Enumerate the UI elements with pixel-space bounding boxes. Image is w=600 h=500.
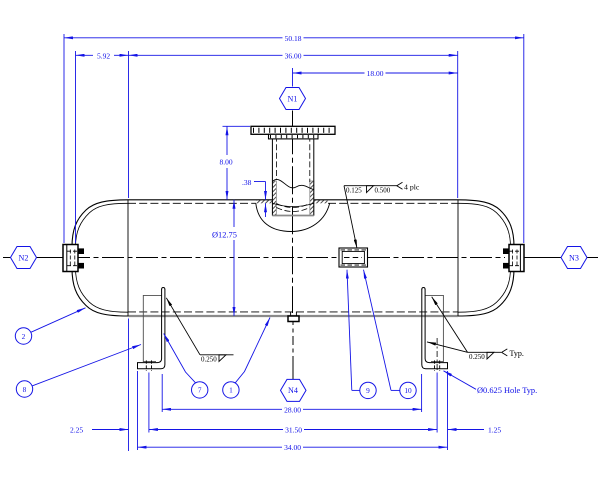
balloon 1 leader <box>235 318 270 383</box>
nozzle N1 break wave <box>272 179 313 189</box>
balloon 8 <box>16 381 32 397</box>
dimension 1.25 <box>448 429 485 431</box>
svg-text:36.00: 36.00 <box>285 51 302 60</box>
nozzle N1 neck inner dashed walls <box>276 127 309 182</box>
svg-text:1: 1 <box>229 386 233 395</box>
dimension 18.00 <box>293 72 458 74</box>
svg-text:0.250: 0.250 <box>469 353 485 361</box>
left saddle leg <box>143 295 161 361</box>
svg-text:31.50: 31.50 <box>285 426 302 435</box>
balloon 1 <box>223 382 239 398</box>
extension lines (blue) <box>64 34 524 451</box>
nozzle N3 flange <box>503 245 524 272</box>
right saddle hole centerline <box>436 338 438 371</box>
svg-text:.38: .38 <box>242 178 252 187</box>
dimension 36.00 <box>129 54 458 56</box>
balloon 7 <box>192 382 208 398</box>
svg-text:1.25: 1.25 <box>488 426 501 435</box>
hole label leader <box>444 371 477 390</box>
vessel shell inner dashed bottom <box>128 311 458 313</box>
nozzle N1 neck wall hatch right <box>310 181 314 216</box>
svg-text:Ø0.625 Hole Typ.: Ø0.625 Hole Typ. <box>477 386 537 395</box>
nozzle N1 neck shell-section hatch left <box>256 200 272 204</box>
svg-text:2: 2 <box>22 332 26 341</box>
weld symbol right saddle 0.250 Typ <box>427 297 507 359</box>
svg-text:18.00: 18.00 <box>367 69 384 78</box>
shell opening inner arcs dashed <box>272 203 313 211</box>
nozzle N4 stub <box>288 312 299 322</box>
balloon 2 leader <box>31 308 86 333</box>
balloon 8 leader <box>32 345 141 386</box>
svg-text:50.18: 50.18 <box>285 34 302 43</box>
nozzle N1 neck wall hatch left <box>272 181 276 216</box>
right head <box>458 200 514 316</box>
balloon 7 leader <box>164 334 196 383</box>
balloon 9 <box>360 382 376 398</box>
hexagon callout N1 <box>280 88 306 110</box>
balloon 9 leader <box>347 270 360 391</box>
dimension 5.92 <box>76 54 129 56</box>
right tangent line <box>457 200 459 316</box>
nozzle N1 neck shell-section hatch right <box>314 200 328 204</box>
svg-text:28.00: 28.00 <box>284 405 301 414</box>
nozzle N1 flange bolt comb <box>253 128 334 133</box>
balloon 10 leader <box>364 270 400 391</box>
svg-text:Ø12.75: Ø12.75 <box>212 230 237 239</box>
balloon 10 <box>400 382 416 398</box>
hexagon callout N2 <box>11 247 37 269</box>
hexagon callout N4 <box>281 379 307 401</box>
dimension 2.25 <box>92 429 129 431</box>
svg-text:4 plc: 4 plc <box>404 183 420 192</box>
N1 leader to flange <box>292 111 294 126</box>
dimension 31.50 <box>149 429 437 431</box>
coupling item 9/10 <box>339 248 368 267</box>
svg-text:N4: N4 <box>288 386 298 395</box>
svg-text:9: 9 <box>366 386 370 395</box>
svg-text:8: 8 <box>23 385 27 394</box>
nozzle N1 neck bottom end <box>272 215 313 217</box>
shell opening arc under nozzle <box>256 203 330 231</box>
balloon 2 <box>15 328 31 344</box>
dimension 34.00 <box>138 446 448 448</box>
svg-text:7: 7 <box>198 386 202 395</box>
nozzle N1 neck outer walls <box>272 134 313 215</box>
svg-text:N2: N2 <box>19 253 29 262</box>
dimension 8.00 <box>226 126 228 200</box>
weld symbol left saddle 0.250 <box>166 298 233 362</box>
vertical nozzle centerline <box>292 111 295 380</box>
nozzle N1 flange hub <box>269 134 319 139</box>
svg-text:2.25: 2.25 <box>70 426 83 435</box>
left saddle hole dashes <box>146 360 151 371</box>
left tangent line <box>127 200 129 316</box>
svg-text:Typ.: Typ. <box>510 349 524 358</box>
vessel shell bottom line <box>128 315 458 317</box>
svg-text:N1: N1 <box>288 94 298 103</box>
weld symbol coupling 0.125/0.500 4 plc <box>344 182 403 248</box>
svg-text:10: 10 <box>404 386 412 395</box>
nozzle N1 flange <box>251 126 335 134</box>
dimension .38 <box>254 182 266 218</box>
right saddle hole dashes <box>435 360 440 371</box>
svg-text:0.250: 0.250 <box>201 355 217 363</box>
nozzle N1 flange hub dashes <box>270 135 317 138</box>
left head <box>72 200 128 316</box>
right saddle leg <box>425 295 443 361</box>
right head inner <box>458 203 511 312</box>
svg-text:0.125: 0.125 <box>346 186 362 194</box>
left head inner <box>76 203 129 312</box>
hexagon callout N3 <box>561 247 587 269</box>
vessel shell inner dashed top <box>128 203 458 312</box>
dimension 50.18 <box>64 37 524 39</box>
svg-text:N3: N3 <box>569 253 579 262</box>
svg-text:5.92: 5.92 <box>97 51 110 60</box>
dimension Dia 12.75 <box>233 200 235 316</box>
svg-text:0.500: 0.500 <box>375 186 391 194</box>
nozzle N2 flange <box>63 245 84 272</box>
vessel shell top line <box>128 199 458 201</box>
dimension 28.00 <box>162 408 421 410</box>
horizontal centerline <box>3 257 598 259</box>
svg-text:34.00: 34.00 <box>284 443 301 452</box>
svg-text:8.00: 8.00 <box>219 158 232 167</box>
